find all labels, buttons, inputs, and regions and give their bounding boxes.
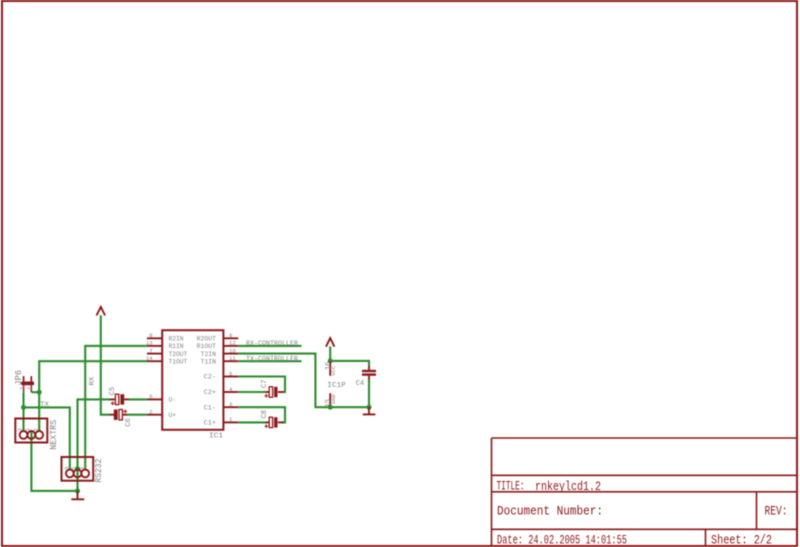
wire NEXTRS pin2 down and right to ground junction <box>31 431 77 491</box>
svg-text:JP6: JP6 <box>14 370 24 386</box>
wire pin3 to C8 right <box>238 407 285 422</box>
pin 13 R1IN <box>146 340 184 350</box>
junction at pin16 <box>328 358 333 363</box>
wire C5 to pin6 <box>129 398 147 400</box>
svg-text:T2IN: T2IN <box>201 351 217 358</box>
svg-text:TX-CONTROLLER: TX-CONTROLLER <box>246 355 298 363</box>
connector NEXTRS <box>15 419 59 450</box>
svg-text:T1OUT: T1OUT <box>169 358 188 365</box>
pin 5 C2- <box>204 370 239 380</box>
junction at RS232 pin2 <box>75 466 80 471</box>
svg-text:C2+: C2+ <box>204 389 217 396</box>
wire VCC down to C6 row <box>101 315 110 415</box>
wire net TX horizontal <box>24 407 70 469</box>
svg-text:3: 3 <box>63 466 70 470</box>
net label RX-CONTROLLER <box>246 340 298 348</box>
wire pin4 to C7 left <box>238 391 266 393</box>
wire net RX vertical to RS232 pin1 <box>84 345 86 470</box>
svg-text:rnkeylcd1.2: rnkeylcd1.2 <box>535 479 601 494</box>
svg-text:TITLE:: TITLE: <box>497 480 525 494</box>
capacitor C5 <box>109 387 129 405</box>
pin 8 R2IN <box>147 332 184 342</box>
junction at JP6 pin2 branch <box>37 390 42 395</box>
net label TX-CONTROLLER <box>246 355 298 363</box>
svg-text:NEXTRS: NEXTRS <box>49 420 59 450</box>
wire VCC to IC1P pin16 <box>329 346 331 361</box>
capacitor C7 <box>261 380 284 398</box>
junction at ground <box>75 488 80 493</box>
wire JP6 pin1 down to NEXTRS pin3 <box>22 392 24 431</box>
svg-text:RS232: RS232 <box>94 459 104 483</box>
svg-text:Date: 24.02.2005 14:01:55: Date: 24.02.2005 14:01:55 <box>497 533 627 547</box>
svg-text:R2OUT: R2OUT <box>197 336 217 343</box>
svg-text:16: 16 <box>325 362 333 370</box>
net label TX <box>40 401 49 409</box>
svg-text:IC1P: IC1P <box>327 382 346 390</box>
svg-text:T2OUT: T2OUT <box>169 351 188 358</box>
svg-text:REV:: REV: <box>765 504 788 518</box>
connector RS232 <box>62 457 104 483</box>
title block REV text <box>765 504 788 518</box>
svg-text:RX: RX <box>89 377 97 386</box>
svg-text:C7: C7 <box>261 380 269 389</box>
svg-text:R1IN: R1IN <box>169 343 184 350</box>
svg-text:1: 1 <box>18 386 25 390</box>
capacitor C4 <box>356 366 376 388</box>
wire pin1 to C8 left <box>238 421 266 423</box>
title block outline <box>492 438 798 546</box>
pin 14 T1OUT <box>146 355 188 365</box>
pin 11 T1IN <box>201 355 239 365</box>
svg-text:U+: U+ <box>169 412 177 419</box>
svg-text:C5: C5 <box>109 387 117 396</box>
power symbol VCC arrow (right) <box>326 338 334 347</box>
pin 3 C1- <box>204 401 239 411</box>
pin 9 R2OUT <box>197 332 239 342</box>
svg-text:VCC: VCC <box>333 365 337 376</box>
svg-text:C1-: C1- <box>204 404 216 411</box>
pin 10 T2IN <box>201 347 239 357</box>
junction at C4 bottom <box>367 405 372 410</box>
jumper JP6 <box>14 370 34 392</box>
pin 4 C2+ <box>204 386 239 396</box>
svg-text:2: 2 <box>26 386 33 390</box>
wire RS232 pin2 down to ground <box>76 468 78 491</box>
wire pin10 to IC1P gnd row <box>238 354 369 408</box>
pin 12 R1OUT <box>197 340 239 350</box>
IC1P pin 15 GND <box>325 393 337 407</box>
power symbol VCC arrow (left) <box>97 307 106 316</box>
title block Date text <box>497 533 627 547</box>
wire pin5 to C7 right <box>238 377 285 393</box>
wire C6 to pin2 <box>127 414 147 416</box>
svg-text:R1OUT: R1OUT <box>197 343 217 350</box>
svg-text:C2-: C2- <box>204 374 216 381</box>
svg-text:10: 10 <box>229 347 236 354</box>
pin 6 V- <box>147 393 176 403</box>
pin 2 V+ <box>147 409 176 419</box>
svg-text:R2IN: R2IN <box>169 336 184 343</box>
wire pin13 to RX vertical <box>85 345 147 347</box>
svg-text:2: 2 <box>149 409 153 416</box>
svg-text:11: 11 <box>229 355 236 362</box>
svg-text:2: 2 <box>24 428 31 432</box>
svg-text:2: 2 <box>71 466 78 470</box>
svg-text:3: 3 <box>229 401 233 408</box>
wire pin16 row to C4 top <box>330 361 369 367</box>
svg-text:6: 6 <box>149 393 153 400</box>
svg-text:1: 1 <box>229 416 233 423</box>
svg-text:4: 4 <box>229 386 233 393</box>
svg-text:5: 5 <box>229 370 233 377</box>
junction at TX branch <box>21 405 26 410</box>
wire TX-CONTROLLER <box>238 360 301 362</box>
svg-text:3: 3 <box>17 428 24 432</box>
net label RX <box>89 377 97 386</box>
capacitor C6 <box>110 410 133 427</box>
wire JP6 pin2 branch <box>31 391 39 393</box>
wire pin14 to left vertical <box>39 361 147 431</box>
wire GND row through C5 to RS232 pin2 <box>78 399 111 469</box>
title block Sheet text <box>711 533 772 547</box>
pin 1 C1+ <box>204 416 239 426</box>
svg-text:IC1: IC1 <box>209 433 223 441</box>
svg-text:1: 1 <box>32 428 39 432</box>
junction at pin15 <box>328 405 333 410</box>
svg-text:T1IN: T1IN <box>201 358 217 365</box>
ground symbol (right) <box>363 407 376 414</box>
wire RX-CONTROLLER <box>238 345 301 347</box>
op-amp box IC1 <box>162 330 223 440</box>
svg-text:1: 1 <box>78 466 85 470</box>
svg-text:7: 7 <box>149 347 153 354</box>
svg-text:Document Number:: Document Number: <box>497 503 603 518</box>
svg-text:Sheet: 2/2: Sheet: 2/2 <box>711 533 772 547</box>
svg-text:C4: C4 <box>356 380 365 388</box>
svg-text:8: 8 <box>149 332 153 339</box>
pin 7 T2OUT <box>147 347 188 357</box>
title block Document Number text <box>497 503 603 518</box>
title block TITLE text <box>497 479 602 494</box>
svg-text:C6: C6 <box>125 418 133 427</box>
svg-text:U-: U- <box>169 397 177 404</box>
svg-text:C8: C8 <box>261 410 269 419</box>
svg-text:TX: TX <box>40 401 49 409</box>
IC1P pin 16 VCC <box>325 362 337 376</box>
capacitor C8 <box>261 410 284 428</box>
svg-text:12: 12 <box>229 340 236 347</box>
svg-text:GND: GND <box>333 393 337 404</box>
svg-text:RX-CONTROLLER: RX-CONTROLLER <box>246 340 298 348</box>
wire C4 bottom to gnd row <box>368 379 370 407</box>
label IC1P <box>327 382 346 390</box>
svg-text:C1+: C1+ <box>204 420 217 427</box>
svg-text:9: 9 <box>229 332 233 339</box>
ground symbol (left) <box>71 491 84 499</box>
